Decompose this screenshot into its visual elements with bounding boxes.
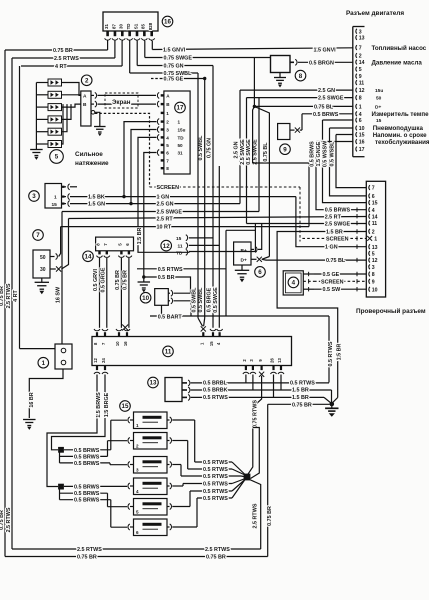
- svg-text:0.5 SWGE: 0.5 SWGE: [246, 139, 252, 165]
- wire 1.5 GNVI row to engine connector C7: [151, 41, 153, 50]
- svg-text:SCREEN: SCREEN: [321, 279, 344, 285]
- spark plug circuit 5 box: [134, 499, 168, 516]
- unit 11 bottom pin 2: [245, 366, 247, 371]
- unit 14 box: [96, 237, 134, 251]
- unit 17 pin 8: [161, 167, 164, 169]
- svg-text:0.5 SWBL: 0.5 SWBL: [198, 287, 204, 313]
- relay terminal 30 connector: [50, 268, 56, 270]
- svg-text:15u: 15u: [375, 88, 383, 94]
- circle label 17: [175, 102, 186, 113]
- unit 11 pin 24 wire to junction: [52, 375, 106, 450]
- shield dashed wire down to SCREEN bus: [95, 113, 150, 187]
- svg-text:26: 26: [270, 358, 275, 363]
- wire 0.75 SWBL vertical down to unit 11: [218, 166, 220, 328]
- unit 11 top pin 7: [104, 332, 106, 337]
- unit 13 pin 3 wire 0.5 RTWS row: [182, 396, 187, 398]
- circle label 7: [33, 230, 44, 241]
- svg-text:14: 14: [372, 214, 378, 220]
- circle label 11: [163, 346, 174, 357]
- svg-text:12: 12: [359, 88, 365, 94]
- coil 5 wire: [62, 104, 68, 132]
- svg-text:2.5 SWGE: 2.5 SWGE: [325, 222, 351, 228]
- engine connector pin C12: [356, 88, 357, 93]
- 2.5 GN row to engine connector C12: [240, 89, 354, 91]
- svg-text:Измеритель темпе: Измеритель темпе: [372, 111, 429, 118]
- svg-text:14: 14: [359, 60, 365, 66]
- engine connector pin C7: [356, 45, 357, 50]
- circle label 16: [162, 16, 173, 27]
- junction dot 0.5 BR: [142, 275, 145, 278]
- unit 16 pin connectors: [106, 31, 109, 36]
- 0.5 BR row to unit 10: [144, 277, 191, 293]
- svg-text:13: 13: [277, 358, 282, 363]
- svg-text:0.5 BRWS: 0.5 BRWS: [74, 461, 100, 467]
- svg-text:2.5 RTWS: 2.5 RTWS: [6, 283, 12, 308]
- svg-text:1.5 BR: 1.5 BR: [292, 388, 309, 394]
- junction dot 0.75 BL: [253, 105, 256, 108]
- unit 11 top pin 10: [118, 332, 120, 337]
- circle label 14: [83, 251, 94, 262]
- svg-text:5: 5: [359, 67, 362, 73]
- 0.75 SWGE vertical from top: [253, 58, 255, 107]
- svg-text:SCREEN: SCREEN: [157, 185, 180, 191]
- wire 0.75 GN row: [136, 41, 138, 66]
- svg-text:0.5 SW: 0.5 SW: [323, 287, 342, 293]
- test connector pin C6: [369, 194, 370, 199]
- unit 2 ground: [94, 126, 106, 128]
- svg-text:3: 3: [166, 128, 169, 133]
- unit 2 shield terminal: [91, 111, 95, 115]
- relay ground: [41, 278, 43, 282]
- 0.5 WSSW vertical engine C10 to test C6: [330, 127, 354, 129]
- svg-text:1 GN: 1 GN: [157, 195, 170, 201]
- svg-text:0.75 BR: 0.75 BR: [0, 286, 5, 306]
- junction square upper: [58, 447, 64, 453]
- svg-text:7: 7: [166, 158, 169, 163]
- svg-text:0.75 SWGE: 0.75 SWGE: [164, 56, 193, 62]
- unit 11 bottom pin 26: [272, 366, 274, 371]
- svg-text:5: 5: [136, 509, 139, 514]
- unit 1 box: [55, 344, 72, 369]
- star junction point: [244, 474, 251, 481]
- unit 17 pin 6 wire 1.5 BR to ground: [157, 150, 159, 156]
- unit 11 pin 2 wire: [245, 375, 247, 383]
- spark plug circuit 6 box: [134, 519, 168, 536]
- svg-text:1: 1: [166, 111, 169, 116]
- svg-text:16 SW: 16 SW: [56, 286, 62, 303]
- unit 11 top pin 16: [126, 332, 128, 337]
- svg-text:2.5 SWGE: 2.5 SWGE: [318, 96, 344, 102]
- 0.75 BR row to ground: [268, 403, 330, 405]
- svg-text:0.5 RTWS: 0.5 RTWS: [290, 381, 315, 387]
- unit 13 pin 2 wire 0.5 BRBK row: [182, 389, 187, 391]
- engine connector pin C4: [356, 111, 357, 116]
- svg-text:1.5 BRGE: 1.5 BRGE: [104, 392, 110, 417]
- unit 3 pin 15 wire 1.5 GN / 2.5 GN row: [65, 203, 67, 205]
- svg-text:4: 4: [372, 208, 375, 214]
- svg-text:2.5 RT: 2.5 RT: [157, 217, 174, 223]
- engine connector pin C1: [356, 104, 357, 109]
- svg-text:8: 8: [299, 73, 303, 80]
- engine connector pin C9: [356, 74, 357, 79]
- unit 17 pin 6: [161, 151, 164, 153]
- svg-text:0.5 GRVI: 0.5 GRVI: [93, 268, 99, 291]
- unit 2 pin B wire to unit 17: [91, 103, 94, 105]
- svg-text:3: 3: [136, 467, 139, 472]
- test connector pin C4: [369, 207, 370, 212]
- plug 2 right wire to star point: [187, 441, 189, 470]
- coil ground: [35, 146, 37, 150]
- svg-text:Экран: Экран: [112, 99, 131, 106]
- unit 17 pin 3 wire 1.5 GN: [157, 127, 159, 133]
- svg-text:2: 2: [359, 54, 362, 60]
- plug 5 left connector: [128, 504, 130, 510]
- svg-text:1 GN: 1 GN: [325, 245, 338, 251]
- unit 11 pin 13 wire: [280, 375, 282, 390]
- circle label 4: [288, 277, 299, 288]
- svg-text:2.5 RTWS: 2.5 RTWS: [54, 56, 79, 62]
- relay unit 7 box: [33, 250, 50, 278]
- svg-text:2.5 RT: 2.5 RT: [325, 215, 342, 221]
- svg-text:0.75 GN: 0.75 GN: [164, 64, 184, 70]
- 2.5 SWGE bus row: [62, 211, 259, 213]
- svg-text:5: 5: [372, 252, 375, 258]
- svg-text:0.5 BRWS: 0.5 BRWS: [74, 484, 100, 490]
- svg-text:1.5 GN: 1.5 GN: [88, 202, 105, 208]
- svg-text:14: 14: [85, 254, 92, 261]
- unit 6 B+ connector riser: [251, 248, 254, 250]
- svg-text:Давление масла: Давление масла: [372, 59, 423, 66]
- unit 17 pin 7: [161, 159, 164, 161]
- svg-text:10: 10: [372, 287, 378, 293]
- control unit 11 box: [92, 337, 292, 366]
- unit 17 pin B connector: [157, 101, 159, 107]
- svg-text:7: 7: [36, 232, 40, 239]
- unit 4 pin 0.5 GE to test C8: [303, 273, 314, 275]
- unit 11 pin 12 wire down-left: [47, 375, 97, 487]
- circle label 9: [280, 144, 291, 155]
- 2.5 GN vertical up to engine connector C12: [239, 90, 241, 204]
- unit 3 pin 1 wire 1.5 BK / 1 GN row: [65, 196, 67, 198]
- svg-text:1: 1: [178, 120, 181, 125]
- svg-text:3: 3: [359, 29, 362, 35]
- svg-text:87: 87: [111, 24, 116, 29]
- 0.5 RTWS fan rows into star point: [195, 461, 232, 463]
- 0.5 RTWS row: [137, 268, 226, 270]
- svg-text:828: 828: [148, 22, 153, 30]
- wire 4 RT row: [121, 41, 123, 66]
- unit 6 D+ connector to 0.75 BL row: [251, 258, 257, 260]
- svg-text:1.5 BRWS: 1.5 BRWS: [96, 392, 102, 418]
- circle label 15: [120, 401, 131, 412]
- svg-text:10: 10: [142, 295, 149, 302]
- unit 11 bottom pin 3: [252, 366, 254, 371]
- ignition coil 2: [48, 91, 62, 98]
- svg-text:50: 50: [40, 255, 46, 261]
- svg-text:2.5 RTWS: 2.5 RTWS: [6, 507, 12, 532]
- coil 4 wire to bus: [36, 118, 48, 120]
- circle label 2: [81, 75, 92, 86]
- svg-text:D+: D+: [241, 258, 247, 264]
- plug 5 right connector: [170, 504, 172, 510]
- unit 11 top pin 8: [96, 332, 98, 337]
- unit 11 pin 9 wire 0.75 RTWS to star point: [248, 376, 262, 475]
- svg-text:0.5 BRWS: 0.5 BRWS: [74, 491, 100, 497]
- svg-text:30: 30: [40, 267, 46, 273]
- svg-text:4 RT: 4 RT: [13, 289, 19, 301]
- svg-text:0.5 BR: 0.5 BR: [158, 275, 175, 281]
- svg-text:2: 2: [136, 443, 139, 448]
- 2.5 SWGE vertical up to engine connector C8: [258, 98, 260, 212]
- svg-text:0.5 RTWS: 0.5 RTWS: [203, 482, 228, 488]
- unit 8 ground: [279, 73, 281, 78]
- X merge of SWBL wires into unit 11 pin 1: [198, 318, 203, 326]
- svg-text:13: 13: [150, 380, 157, 387]
- svg-text:15: 15: [176, 236, 182, 242]
- plug 4 left connector: [128, 483, 130, 489]
- unit 10 bottom wire 0.5 BART: [150, 305, 162, 316]
- circle label 1: [38, 357, 49, 368]
- test connector pin C15: [369, 200, 370, 205]
- 2.5 RTWS bottom row: [12, 548, 261, 550]
- unit 17 pin 2: [161, 120, 164, 122]
- plug 3 right connector: [170, 462, 172, 468]
- left bus wire 4 RT vertical to unit 1: [19, 66, 21, 349]
- test connector pin C5: [369, 251, 370, 256]
- 0.5 RTWS vertical from 0.5 BART: [328, 316, 330, 383]
- svg-text:TD: TD: [178, 135, 185, 140]
- svg-text:0.5 BRWS: 0.5 BRWS: [74, 498, 100, 504]
- unit 11 top pin 15: [212, 332, 214, 337]
- branch of 0.75 RTWS into star: [251, 428, 260, 479]
- svg-text:0.75 BR: 0.75 BR: [53, 48, 73, 54]
- unit 17 pin 2 wire 1.5 BK: [157, 119, 159, 125]
- svg-text:4 RT: 4 RT: [55, 64, 67, 70]
- svg-text:9: 9: [372, 279, 375, 285]
- unit 9 box: [278, 124, 290, 140]
- engine connector pin C14: [356, 60, 357, 65]
- test connector pin C11: [369, 221, 370, 226]
- test connector pin C13: [369, 244, 370, 249]
- svg-text:2: 2: [166, 120, 169, 125]
- coil 2 wire to bus: [36, 94, 48, 96]
- test connector box: [366, 181, 385, 297]
- ground under unit 1: [23, 419, 35, 421]
- svg-text:0.75 BL: 0.75 BL: [314, 104, 334, 110]
- svg-text:0.5 BART: 0.5 BART: [158, 315, 183, 321]
- svg-text:0.5 GRGE: 0.5 GRGE: [100, 267, 106, 292]
- svg-text:16: 16: [164, 19, 171, 26]
- svg-text:1.5 BR: 1.5 BR: [292, 395, 309, 401]
- svg-text:0.75 RTWS: 0.75 RTWS: [253, 400, 259, 428]
- svg-text:S1: S1: [133, 23, 138, 29]
- svg-text:50: 50: [376, 96, 382, 102]
- engine connector pin C11: [356, 80, 357, 85]
- test connector pin C12: [369, 258, 370, 263]
- svg-text:0.5 RTWS: 0.5 RTWS: [203, 460, 228, 466]
- engine connector pin C16: [356, 139, 357, 144]
- svg-text:натяжение: натяжение: [75, 160, 109, 167]
- engine connector pin C17: [356, 147, 357, 152]
- svg-text:0.5 RTWS: 0.5 RTWS: [203, 489, 228, 495]
- unit 6 D+ riser 0.75 BL: [262, 257, 270, 260]
- svg-text:Топливный насос: Топливный насос: [372, 45, 427, 52]
- unit 3 top pin wire: [65, 186, 67, 188]
- svg-text:8: 8: [166, 166, 169, 171]
- svg-text:6: 6: [258, 269, 262, 276]
- ignition coil 6: [48, 141, 62, 148]
- spark plug circuit 1 box: [134, 412, 168, 429]
- crossover X of 0.75 BR wires: [122, 325, 128, 331]
- unit 4 pin 0.5 SW to test C10: [303, 288, 314, 290]
- circle label 5: [50, 150, 64, 164]
- svg-text:10: 10: [115, 341, 120, 346]
- ignition coil 1: [48, 79, 62, 86]
- svg-text:4: 4: [166, 135, 169, 140]
- plug 2 right connector: [170, 438, 172, 444]
- test connector pin C2: [369, 229, 370, 234]
- svg-text:17: 17: [359, 147, 365, 153]
- 16 SW wire down to unit 1: [61, 212, 63, 345]
- unit 10 pin 2 connector: [168, 300, 170, 302]
- svg-text:0.5 BRWS: 0.5 BRWS: [74, 454, 100, 460]
- svg-text:0.5 SWGE: 0.5 SWGE: [213, 287, 219, 313]
- svg-text:0.75 GN: 0.75 GN: [207, 138, 213, 158]
- ignition coil 5: [48, 128, 62, 135]
- svg-text:15: 15: [359, 133, 365, 139]
- plug 1 right wire to star point: [194, 420, 196, 462]
- 0.5 BRWS row to plug 6: [60, 499, 111, 501]
- svg-text:16: 16: [359, 140, 365, 146]
- test connector pin C8: [369, 272, 370, 277]
- svg-text:SCREEN: SCREEN: [326, 236, 349, 242]
- coil 2 wire: [62, 94, 81, 96]
- unit 17 box: [164, 91, 190, 174]
- unit 17 pin A: [161, 94, 164, 96]
- plug 6 right wire to star point: [196, 498, 198, 527]
- junction dot on 0.75 GE wire: [203, 77, 206, 80]
- plug 1 left connector: [128, 417, 130, 423]
- test connector pin C7: [369, 185, 370, 190]
- test connector pin C10: [369, 287, 370, 292]
- engine connector pin C2: [356, 53, 357, 58]
- svg-text:15: 15: [52, 202, 58, 208]
- 0.75 BL row to engine connector C1: [254, 105, 353, 107]
- unit 17 pin 3: [161, 128, 164, 130]
- unit 10 box: [155, 289, 169, 306]
- 1.5 GNGE vertical engine C6 to test C15: [323, 119, 354, 121]
- unit 11 top pin 1: [202, 332, 204, 337]
- svg-text:0.5 RTWS: 0.5 RTWS: [203, 395, 228, 401]
- unit 17 pin A connector: [157, 92, 159, 98]
- svg-text:0.75 BR: 0.75 BR: [0, 510, 5, 530]
- unit 9 wire up: [301, 114, 303, 130]
- plug 5 right wire to star point: [189, 491, 191, 507]
- left bus wire 2.5 RTWS vertical: [11, 58, 13, 549]
- svg-text:12: 12: [163, 243, 170, 250]
- unit 11 bottom pin 24: [104, 366, 106, 371]
- svg-text:10 RT: 10 RT: [157, 225, 172, 231]
- coil 1 wire to amplifier A: [62, 83, 81, 96]
- wire down to relay terminal 30: [62, 219, 69, 270]
- unit 4 pin SCREEN to test C9: [303, 280, 314, 282]
- coil 6 wire to bus: [36, 143, 48, 145]
- engine connector pin C6: [356, 118, 357, 123]
- unit 14 pin wires down to control unit 11: [99, 258, 101, 328]
- svg-text:2.5 GN: 2.5 GN: [318, 88, 335, 94]
- unit 2 pin A wire to unit 17: [91, 94, 94, 96]
- circle label 3: [29, 191, 40, 202]
- svg-text:2.5 GN: 2.5 GN: [234, 141, 240, 158]
- amplifier unit 2 box: [81, 91, 91, 126]
- wire 0.75 GE row: [151, 78, 162, 80]
- svg-text:85: 85: [141, 24, 146, 29]
- junction dot: [129, 202, 132, 205]
- unit 8 output 0.5 BRGN to engine connector C14: [290, 61, 294, 63]
- svg-text:1.5 BR: 1.5 BR: [137, 228, 143, 245]
- svg-text:3: 3: [32, 193, 36, 200]
- svg-text:0.5 BRGN: 0.5 BRGN: [309, 60, 334, 66]
- svg-text:0.5 BRBK: 0.5 BRBK: [203, 388, 228, 394]
- svg-text:16: 16: [123, 341, 128, 346]
- coil 5 wire to bus: [36, 131, 48, 133]
- svg-text:13: 13: [359, 36, 365, 42]
- svg-text:4: 4: [136, 489, 139, 494]
- 0.5 BRWS row to engine connector C4: [302, 113, 354, 115]
- spark plug circuit 3 box: [134, 457, 168, 474]
- svg-text:0.5 RTWS: 0.5 RTWS: [328, 341, 334, 366]
- svg-text:0.75 BR: 0.75 BR: [77, 555, 97, 561]
- unit 17 pin 1: [161, 112, 164, 114]
- relay terminal 50 connector: [50, 256, 55, 258]
- svg-text:2.5 SWGE: 2.5 SWGE: [240, 139, 246, 165]
- left bus wire 0.75 BR vertical: [4, 50, 6, 557]
- svg-text:8: 8: [359, 96, 362, 102]
- svg-text:7: 7: [372, 186, 375, 192]
- svg-text:0.5 SWBL: 0.5 SWBL: [198, 135, 204, 161]
- unit 11 bottom pin 13: [280, 366, 282, 371]
- unit 8 box: [271, 56, 291, 73]
- 0.5 BRWS row to plug 4: [64, 485, 127, 487]
- svg-text:2.5 RTWS: 2.5 RTWS: [205, 547, 230, 553]
- svg-text:31: 31: [178, 151, 184, 156]
- plug 3 right wire to star point: [180, 465, 182, 477]
- unit 17 pin 4: [161, 136, 164, 138]
- inline connector ticks on test rows: [356, 208, 358, 212]
- svg-text:0.75 BR: 0.75 BR: [122, 270, 128, 290]
- unit 4 box: [283, 271, 303, 295]
- svg-text:6: 6: [372, 194, 375, 200]
- spark plug circuit 4 box: [134, 478, 168, 495]
- svg-text:0.5 BRBL: 0.5 BRBL: [203, 381, 228, 387]
- svg-text:Проверочный разъем: Проверочный разъем: [356, 307, 426, 315]
- circle label 8: [295, 70, 306, 81]
- svg-text:9: 9: [359, 74, 362, 80]
- unit 11 pin 3 wire: [252, 375, 254, 390]
- circle label 6: [255, 267, 266, 278]
- 0.5 BRWS row to plug 2: [60, 455, 108, 457]
- unit 11 pin 26 wire: [273, 375, 275, 398]
- coil 1 wire to bus: [36, 82, 48, 84]
- svg-text:0.75 BL: 0.75 BL: [326, 258, 346, 264]
- svg-text:1: 1: [359, 105, 362, 111]
- coil 3 wire: [62, 104, 81, 107]
- svg-text:15: 15: [209, 341, 214, 346]
- svg-text:TD: TD: [126, 24, 131, 30]
- unit 6 box B+/D+: [234, 242, 251, 265]
- wire 0.5 SWBL vertical down to unit 11: [197, 73, 199, 318]
- svg-text:Сильное: Сильное: [75, 151, 103, 158]
